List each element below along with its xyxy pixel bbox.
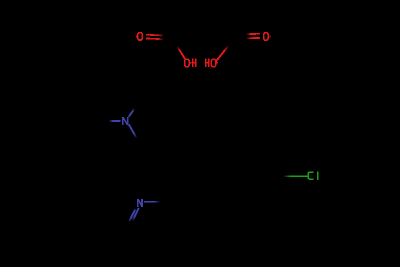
right hydroxyl O glyph nub <box>217 62 218 64</box>
Cl chlorine C label <box>308 172 313 179</box>
right O glyph nub <box>269 35 270 37</box>
maleic acid right C=O double bond upper red half <box>246 33 260 35</box>
left hydroxyl O glyph nub <box>190 62 192 64</box>
N-CH2 lower-right bond blue half <box>129 124 137 138</box>
N-CH3 upper-right bond blue half <box>129 109 135 117</box>
maleic acid right carbonyl O label <box>264 33 268 40</box>
pyridine N label <box>138 199 142 207</box>
left O glyph nub <box>136 36 137 38</box>
pyridine N=C6 double bond right blue half <box>132 208 138 221</box>
N-CH3 left bond blue half <box>109 120 121 122</box>
maleic acid left hydroxyl O label <box>185 59 189 66</box>
maleic acid right C=O double bond lower red half <box>246 37 260 39</box>
Cl chlorine l label <box>317 171 319 180</box>
maleic acid right hydroxyl H label <box>206 58 209 67</box>
maleic acid right C-OH bond red half <box>216 46 229 62</box>
pyridine N-C2 bond blue half <box>144 201 160 203</box>
maleic acid left C-OH bond red half <box>177 46 185 59</box>
dimethylamino N label <box>123 117 128 125</box>
maleic acid left C=O double bond lower red half <box>146 37 164 40</box>
maleic acid left hydroxyl H label <box>193 58 196 67</box>
maleic acid left C=O double bond upper red half <box>146 34 164 37</box>
chlorophenyl C-Cl bond green half <box>283 175 308 177</box>
maleic acid left carbonyl O label <box>138 33 142 40</box>
pyridine N=C6 double bond left blue half <box>129 210 135 223</box>
maleic acid right hydroxyl O label <box>211 59 215 66</box>
